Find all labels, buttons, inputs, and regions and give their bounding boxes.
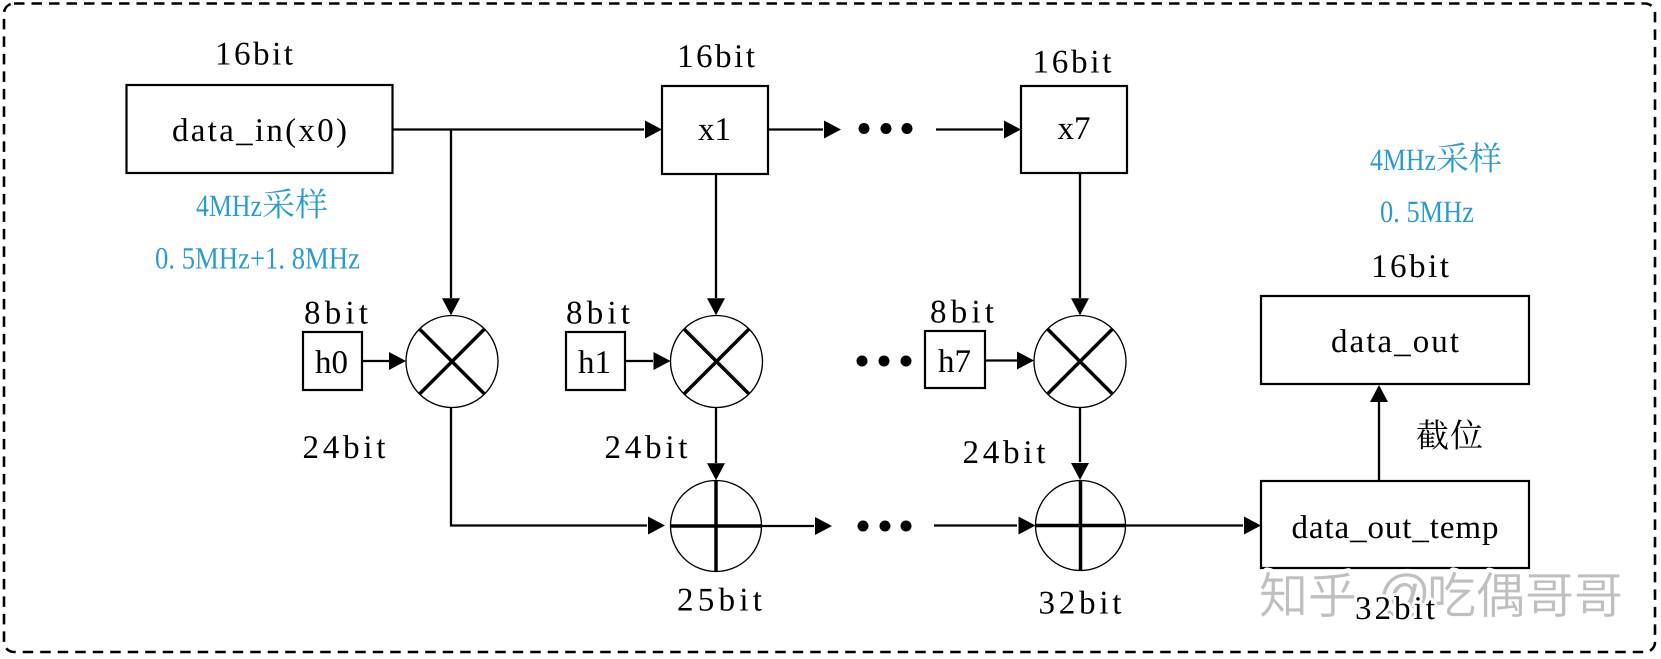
wire A1 to dots (762, 525, 815, 527)
label data_out_temp (1293, 515, 1497, 545)
register data_out_temp (1261, 481, 1529, 568)
label 16bit above data_out (1374, 254, 1449, 277)
ellipsis dots adder row (858, 521, 912, 532)
wire A2 to data_out_temp (1126, 524, 1244, 526)
wire h1 to M2 (625, 360, 653, 362)
register data_in (x0) (127, 85, 393, 173)
label 25bit under A1 (678, 588, 761, 611)
watermark zhihu @chiougege (1261, 572, 1621, 618)
multiplier M3 (1034, 316, 1126, 408)
wire M1 to adder A1 (451, 408, 647, 526)
adder A2 (1036, 481, 1126, 571)
wire x1 to dots (768, 128, 823, 130)
label 24bit under M2 (606, 435, 687, 458)
wire branch node to multiplier M1 (450, 130, 452, 299)
label h1 (578, 350, 609, 373)
label data_in(x0) (173, 118, 345, 148)
wire x1 to multiplier M2 (715, 174, 717, 298)
wire x7 to multiplier M3 (1079, 173, 1081, 298)
wire h7 to M3 (985, 359, 1017, 361)
label 8bit above h7 (931, 300, 994, 323)
label 24bit under M1 (304, 435, 385, 458)
label 32bit under data_out_temp (1357, 596, 1435, 619)
wire dots to x7 (936, 128, 1003, 130)
register x7 (1021, 86, 1127, 173)
label 4MHz sampling (cyan, left) (197, 188, 328, 218)
label 8bit above h1 (567, 301, 630, 324)
ellipsis dots top (859, 123, 913, 134)
coefficient h0 (303, 332, 362, 390)
wire M3 to adder A2 (1079, 408, 1081, 463)
wire M2 to adder A1 (715, 408, 717, 464)
adder A1 (671, 481, 762, 572)
label h7 (938, 349, 970, 372)
label data_out (1332, 329, 1459, 356)
label 16bit above data_in (218, 42, 293, 65)
wire h0 to M1 (362, 360, 389, 362)
label 16bit above x7 (1035, 50, 1111, 73)
label 0.5MHz (cyan, right) (1381, 201, 1473, 222)
label 8bit above h0 (305, 301, 368, 324)
wire dots to A2 (934, 524, 1017, 526)
label h0 (315, 350, 346, 373)
label x1 (698, 118, 729, 140)
label 24bit under M3 (964, 440, 1045, 463)
multiplier M1 (406, 316, 498, 408)
label 32bit under A2 (1040, 591, 1121, 614)
wire data_out_temp to data_out (1378, 402, 1380, 480)
coefficient h1 (566, 332, 625, 390)
register x1 (662, 86, 768, 174)
label 4MHz sampling (cyan, right) (1371, 142, 1502, 172)
ellipsis dots coefficients (857, 356, 912, 367)
label 16bit above x1 (680, 44, 755, 67)
wire data_in to x1 (393, 128, 645, 130)
multiplier M2 (671, 316, 763, 408)
label jiewei (truncate) (1417, 419, 1482, 449)
coefficient h7 (925, 331, 985, 388)
register data_out (1261, 296, 1529, 384)
label 0.5MHz+1.8MHz (cyan, left) (156, 248, 359, 269)
label x7 (1058, 117, 1090, 139)
